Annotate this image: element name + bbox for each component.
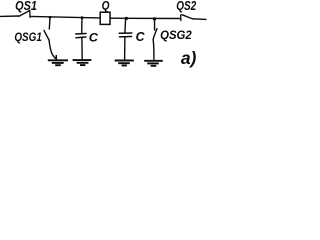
svg-text:а): а)	[181, 48, 197, 68]
ground C1	[73, 60, 92, 65]
ground QSG2	[144, 61, 163, 66]
node junction C2	[125, 17, 128, 20]
breaker box Q	[100, 12, 110, 24]
disconnector QS1 contact tick	[29, 10, 31, 17]
capacitor C2 plates	[119, 33, 132, 37]
ground QSG1	[48, 55, 68, 65]
wire capacitor C1 branch stem	[81, 18, 83, 33]
wire bus segment box Q to QS2	[111, 17, 181, 19]
grounding switch QSG2 blade	[153, 29, 157, 40]
wire capacitor C2 branch stem	[124, 18, 127, 32]
disconnector QS2 contact tick	[180, 15, 182, 21]
svg-text:QSG1: QSG1	[14, 31, 42, 44]
wire QSG1 lower lead	[49, 40, 56, 59]
disconnector QS2 blade	[182, 15, 193, 19]
wire QSG2 branch stem	[154, 19, 156, 30]
capacitor C1 plates	[76, 34, 86, 38]
disconnector QS1 blade	[19, 11, 29, 17]
svg-text:C: C	[136, 30, 146, 44]
wire bus segment QS1 to box Q	[30, 16, 100, 18]
wire QSG2 lower lead	[152, 40, 155, 60]
ground C2	[115, 61, 134, 66]
wire capacitor C2 lower lead	[124, 37, 126, 59]
node junction QSG2	[153, 17, 156, 20]
wire bus left lead	[1, 15, 19, 17]
wire bus right lead	[193, 18, 206, 21]
node junction QSG1	[49, 16, 52, 19]
grounding switch QSG1 blade	[44, 30, 49, 40]
svg-text:QS2: QS2	[176, 0, 197, 13]
wire capacitor C1 lower lead	[81, 38, 83, 59]
wire QSG1 branch stem	[48, 17, 51, 29]
svg-text:C: C	[89, 31, 99, 45]
svg-text:QS1: QS1	[15, 0, 37, 13]
svg-text:Q: Q	[102, 0, 110, 13]
svg-text:QSG2: QSG2	[160, 30, 192, 42]
node junction C1	[81, 16, 84, 19]
